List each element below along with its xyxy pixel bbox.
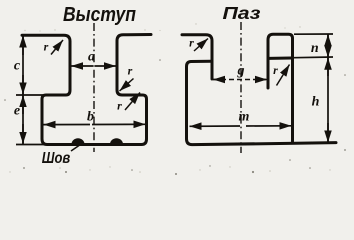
svg-text:h: h (312, 95, 320, 110)
dimension a (slot width) (71, 65, 93, 67)
dimension b (tongue width) (44, 124, 91, 126)
svg-text:Шов: Шов (42, 150, 71, 167)
dimension m (cavity width) (190, 125, 241, 127)
paper background (0, 0, 354, 177)
dimension c arrows (22, 36, 24, 56)
extension line top right (294, 33, 333, 35)
dimension n/h line (327, 34, 329, 142)
groove profile: top-left tab (right figure) (182, 35, 212, 79)
seam bump right (110, 138, 123, 144)
svg-text:r: r (44, 40, 49, 54)
groove flange underside (right) (269, 57, 291, 60)
svg-text:g: g (237, 64, 245, 79)
svg-text:a: a (88, 50, 95, 65)
svg-text:e: e (14, 104, 20, 119)
centerline of groove joint (240, 22, 242, 153)
extension line at bottom (16, 144, 47, 146)
svg-text:Выступ: Выступ (63, 3, 136, 26)
centerline of tongue joint (93, 23, 95, 152)
extension line mid right (294, 56, 333, 59)
groove profile: left wall and bottom (187, 61, 337, 144)
svg-text:r: r (189, 36, 194, 50)
dimension g (groove mouth width, dashed) (213, 79, 267, 81)
svg-text:n: n (311, 41, 319, 56)
svg-text:r: r (117, 99, 122, 113)
svg-text:Паз: Паз (223, 3, 261, 23)
dimension h arrows (327, 58, 329, 76)
dimension e arrows (22, 95, 24, 114)
svg-text:r: r (273, 63, 278, 77)
svg-text:b: b (87, 110, 94, 125)
seam bump left (72, 138, 85, 144)
svg-text:c: c (14, 59, 21, 74)
svg-text:r: r (128, 64, 133, 78)
tongue profile outline (left figure) (22, 35, 151, 145)
extension line at step (16, 94, 47, 96)
scan speckles (9, 23, 330, 173)
seam leader line (71, 146, 79, 152)
dimension n arrows (327, 34, 329, 48)
dimension c/e line (22, 36, 24, 144)
groove profile: right side with flange (268, 34, 293, 141)
svg-text:m: m (239, 110, 250, 125)
